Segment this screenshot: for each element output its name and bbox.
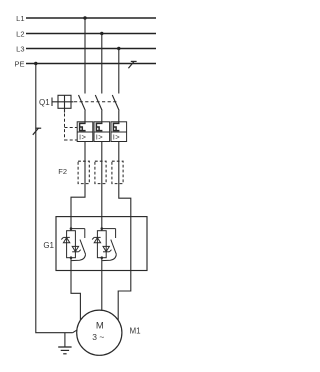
node PE junction dot [34,62,37,65]
converter G1 box [56,217,147,271]
svg-text:Q1: Q1 [39,98,50,107]
motor M1 circle [77,310,122,355]
op Q1 actuator cross vertical [64,95,66,112]
svg-text:3 ~: 3 ~ [92,332,104,342]
thyristor module2 down (right path) [103,246,112,251]
wire module2 to motor [101,258,103,311]
release Q1 pole3 box [111,122,127,142]
fuse F2 pole3 dashed box [112,161,123,183]
thyristor module2 up (left path) [92,237,101,242]
svg-text:L2: L2 [16,29,24,38]
fuse F2 pole1 dashed box [78,161,89,183]
wire L3 rail [26,48,156,50]
svg-text:I>: I> [113,133,121,142]
release Q1 pole1 thermal glyph [84,122,86,124]
node L3 junction dot [117,47,120,50]
op Q1 actuator horizontal [52,101,74,103]
wire PE vertical [36,64,73,333]
wire PE to motor diagonal [73,329,79,333]
wire L2 rail [26,33,156,35]
svg-text:L1: L1 [16,14,24,23]
svg-text:PE: PE [14,59,24,68]
PE continuation arrow on rail [128,61,136,68]
release Q1 pole3 thermal glyph [118,122,120,124]
linkage Q1 dashed to contacts [74,101,117,103]
node L2 junction dot [100,32,103,35]
svg-text:F2: F2 [58,167,67,176]
contact Q1 pole2 blade [95,95,102,111]
svg-text:G1: G1 [43,241,54,250]
wire L3 drop [118,49,120,94]
svg-text:M: M [96,320,104,331]
thyristor module1 down (right path) [72,246,81,251]
thyristor module1 up (left path) [61,237,70,242]
svg-text:I>: I> [96,133,104,142]
thyristor pair module2 loop [97,231,106,258]
svg-text:M1: M1 [130,326,142,335]
svg-text:I>: I> [79,133,87,142]
node module1 top junction [70,227,73,230]
svg-text:L3: L3 [16,44,24,53]
op Q1 actuator box [58,95,71,108]
bypass module1 branch [71,229,86,261]
node module2 bottom junction [101,256,104,259]
node module1 bottom junction [70,256,73,259]
wire pole1 trip to step [71,142,85,231]
op Q1 actuator terminal tick [51,98,53,107]
wire L1 drop [84,18,86,94]
ground [58,333,71,354]
wire pole2 below contact [101,111,103,122]
wire L1 rail [26,17,156,19]
wire module1 to motor [71,258,80,320]
thyristor pair module1 loop [67,231,76,258]
fuse F2 pole2 dashed box [95,161,106,183]
linkage Q1 dashed branch lower [65,139,78,141]
wire pole3 trip to step [118,142,131,322]
wire pole3 below contact [118,111,120,122]
linkage Q1 dashed vertical [64,114,66,141]
wire PE rail [26,63,156,65]
wire pole1 below contact [84,111,86,122]
contact Q1 pole3 blade [112,95,119,111]
wire L2 drop [101,34,103,94]
release Q1 pole1 box [77,122,93,142]
PE continuation arrow on vertical [33,128,41,135]
contact Q1 pole1 blade [79,95,86,111]
wire pole2 trip down [101,142,103,231]
release Q1 pole2 box [94,122,110,142]
node L1 junction dot [83,16,86,19]
linkage Q1 dashed branch upper [65,127,78,129]
node module2 top junction [101,227,104,230]
bypass module2 branch [102,229,117,261]
release Q1 pole2 thermal glyph [101,122,103,124]
